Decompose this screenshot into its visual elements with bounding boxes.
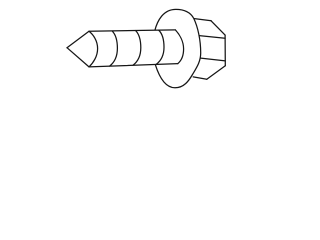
hex flange screw line drawing bbox=[0, 0, 300, 98]
shank body fill bbox=[89, 30, 184, 67]
thread crest 1 bbox=[110, 31, 118, 66]
tip cone lower slant bbox=[67, 48, 89, 67]
head bottom chamfer bbox=[207, 66, 226, 80]
thread crest 2 bbox=[133, 31, 141, 66]
thread crest 3 bbox=[156, 30, 164, 64]
shank bottom line bbox=[89, 64, 178, 67]
tip cone upper slant bbox=[67, 31, 89, 47]
hex head outline (behind flange) bbox=[193, 18, 226, 79]
head bottom edge bbox=[193, 77, 207, 79]
shank end cap arc bbox=[175, 30, 183, 64]
head top chamfer bbox=[211, 21, 225, 35]
head bottom facet line bbox=[199, 58, 226, 61]
head right end edge bbox=[224, 35, 226, 66]
head top edge bbox=[193, 18, 212, 20]
tip cone base arc bbox=[89, 31, 98, 67]
shank top line bbox=[89, 30, 175, 31]
tip cone fill bbox=[67, 31, 98, 67]
head top facet line bbox=[196, 35, 226, 38]
flange washer outline bbox=[152, 9, 200, 87]
